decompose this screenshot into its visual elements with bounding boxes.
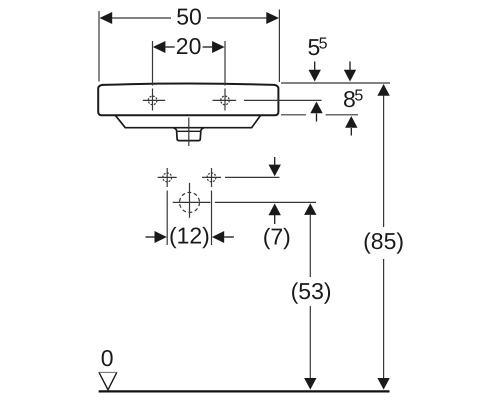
dimension 53 top arrow <box>304 203 316 215</box>
svg-text:5: 5 <box>319 36 328 53</box>
svg-text:(53): (53) <box>291 278 332 304</box>
dimension 85 line lower segment <box>383 259 385 379</box>
fixing hole right dashed circle <box>207 173 216 182</box>
tap hole right horizontal hair <box>213 99 237 101</box>
dimension 5.5 up arrow <box>310 102 322 114</box>
dimension 20 arrow right <box>212 41 225 53</box>
dimension 7 up arrow stem <box>274 215 276 224</box>
svg-text:(85): (85) <box>363 228 404 254</box>
fixing hole leader line to dimension 7 <box>225 176 280 178</box>
tap hole left dashed circle <box>148 96 157 105</box>
svg-text:(12): (12) <box>169 223 210 249</box>
dimension 53 line upper segment <box>309 215 311 277</box>
fixing hole right horizontal hair <box>202 176 221 178</box>
dimension 7 down arrow <box>269 165 281 177</box>
dimension 12 left arrow stem <box>146 236 156 238</box>
dimension 53 bottom arrow <box>304 378 316 390</box>
svg-text:5: 5 <box>354 87 363 104</box>
fixing hole left dashed circle <box>163 173 172 182</box>
dimension 50 line left segment <box>110 17 171 19</box>
drain outlet <box>174 128 204 141</box>
washbasin lower bowl trapezoid <box>115 115 260 127</box>
dimension 85 top arrow <box>377 84 389 96</box>
dimension 8.5 down arrow <box>344 70 356 82</box>
dimension 50 extension line left <box>98 11 100 82</box>
dimension 5.5 down arrow <box>309 70 321 82</box>
tap hole left horizontal hair <box>143 99 165 101</box>
washbasin body rectangle <box>98 84 278 116</box>
basin bottom edge extension line left segment <box>281 114 306 116</box>
svg-text:50: 50 <box>176 4 202 30</box>
dimension 85 bottom arrow <box>377 378 389 390</box>
datum triangle <box>98 371 117 373</box>
dimension 20 extension line left / tap centerline <box>152 41 154 86</box>
dimension 7 down arrow stem <box>274 157 276 166</box>
basin bottom edge extension line right segment <box>326 114 359 116</box>
dimension 5.5 down arrow stem <box>314 62 316 71</box>
dimension 20 arrow left <box>153 41 166 53</box>
tap hole right dashed circle <box>221 96 230 105</box>
dimension 8.5 down arrow stem <box>349 62 351 71</box>
svg-text:0: 0 <box>101 345 114 371</box>
overflow vertical hair <box>189 183 191 218</box>
svg-text:20: 20 <box>176 33 202 59</box>
fixing hole left vertical hair <box>166 168 168 187</box>
basin top edge extension line <box>281 82 390 84</box>
fixing hole right vertical hair <box>211 168 213 187</box>
dimension 7 up arrow <box>269 204 281 216</box>
dimension 12 extension line right <box>211 191 213 246</box>
overflow dashed circle <box>180 192 200 212</box>
dimension 53 line lower segment <box>309 306 311 379</box>
dimension 50 extension line right <box>278 10 280 83</box>
tap hole leader line to 8.5 dimension <box>244 99 322 101</box>
dimension 8.5 up arrow stem <box>350 128 352 136</box>
svg-text:(7): (7) <box>263 224 291 250</box>
dimension 20 arrow right stem <box>203 46 213 48</box>
dimension 12 right arrow stem <box>224 236 234 238</box>
overflow horizontal hair <box>173 201 211 203</box>
overflow leader line to dimensions 7 and 53 <box>215 201 316 203</box>
dimension 12 left arrow <box>155 231 167 243</box>
drain inner lip line <box>177 130 201 132</box>
drain centerline <box>188 118 190 147</box>
dimension 50 arrow right <box>266 12 279 24</box>
dimension 50 line right segment <box>207 17 268 19</box>
dimension 85 line upper segment <box>383 96 385 228</box>
dimension 20 arrow left stem <box>165 46 174 48</box>
dimension 5.5 up arrow stem <box>316 114 318 122</box>
dimension 12 right arrow <box>212 231 224 243</box>
dimension 8.5 up arrow <box>345 116 357 128</box>
fixing hole left horizontal hair <box>158 176 177 178</box>
dimension 50 arrow left <box>100 12 113 24</box>
dimension 20 extension line right / tap centerline <box>224 41 226 86</box>
dimension 12 extension line left <box>166 191 168 246</box>
ground line <box>99 390 390 392</box>
